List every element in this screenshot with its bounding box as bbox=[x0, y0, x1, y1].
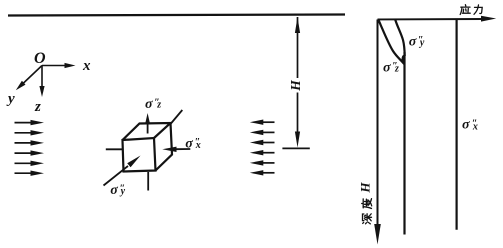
应 bbox=[460, 5, 470, 15]
cube top face bbox=[123, 123, 171, 140]
svg-text:z: z bbox=[156, 100, 161, 111]
stress axis (top, pointing right) bbox=[378, 16, 497, 22]
sigma z label (cube) bbox=[145, 97, 161, 112]
svg-text:H: H bbox=[288, 80, 303, 92]
z axis arrow bbox=[39, 66, 44, 98]
sigma y curve (from axis) bbox=[395, 20, 405, 57]
svg-text:σ: σ bbox=[185, 137, 193, 152]
x axis arrow bbox=[42, 63, 76, 68]
svg-text:x: x bbox=[195, 140, 201, 151]
curve junction blob bbox=[402, 55, 406, 64]
y axis arrow bbox=[16, 66, 42, 91]
ground surface line bbox=[8, 15, 345, 16]
svg-text:y: y bbox=[419, 38, 425, 49]
svg-text:O: O bbox=[34, 50, 46, 67]
svg-text:x: x bbox=[472, 121, 478, 132]
stress-depth plot: depth axis bbox=[374, 20, 381, 245]
sigma x label (plot) bbox=[462, 118, 478, 133]
x axis left stub bbox=[106, 148, 122, 150]
H dimension line bbox=[295, 17, 300, 148]
svg-text:H: H bbox=[357, 182, 372, 194]
cube element faces bbox=[123, 123, 173, 172]
svg-text:y: y bbox=[120, 186, 126, 197]
sigma z top arrow bbox=[145, 113, 150, 134]
sigma y label (plot) bbox=[409, 34, 425, 49]
sigma z curve (from origin) bbox=[379, 20, 405, 65]
label 深度H (depth H) hand-drawn, rotated bbox=[362, 199, 372, 224]
svg-text:z: z bbox=[34, 99, 41, 115]
left lateral arrow group (pointing right) bbox=[15, 120, 45, 176]
svg-text:z: z bbox=[394, 64, 399, 75]
sigma y label (cube) bbox=[110, 183, 125, 198]
svg-text:σ: σ bbox=[145, 97, 153, 112]
sigma x label (cube) bbox=[185, 137, 201, 152]
深 bbox=[363, 214, 372, 224]
cube front face bbox=[123, 138, 156, 172]
svg-text:σ: σ bbox=[383, 61, 391, 76]
svg-text:σ: σ bbox=[462, 118, 470, 133]
asymptote vertical line bbox=[403, 52, 405, 235]
svg-text:x: x bbox=[82, 58, 91, 74]
right lateral arrow group (pointing left) bbox=[250, 120, 275, 176]
z axis bottom stub bbox=[147, 172, 149, 191]
label 应力 (stress) hand-drawn bbox=[460, 5, 482, 15]
度 bbox=[362, 199, 372, 209]
sigma z label (plot) bbox=[383, 61, 399, 76]
svg-text:y: y bbox=[6, 91, 15, 107]
H dimension end tick bbox=[282, 147, 309, 149]
力 bbox=[474, 5, 482, 14]
sigma x arrow (pointing left into cube) bbox=[162, 147, 190, 152]
svg-text:σ: σ bbox=[409, 34, 417, 49]
diagonal stub top right of cube bbox=[171, 110, 183, 124]
svg-text:σ: σ bbox=[110, 183, 118, 198]
sigma x vertical line bbox=[456, 20, 458, 230]
cube right face bbox=[156, 123, 173, 171]
sigma y diagonal axis with arrow bbox=[104, 156, 141, 186]
